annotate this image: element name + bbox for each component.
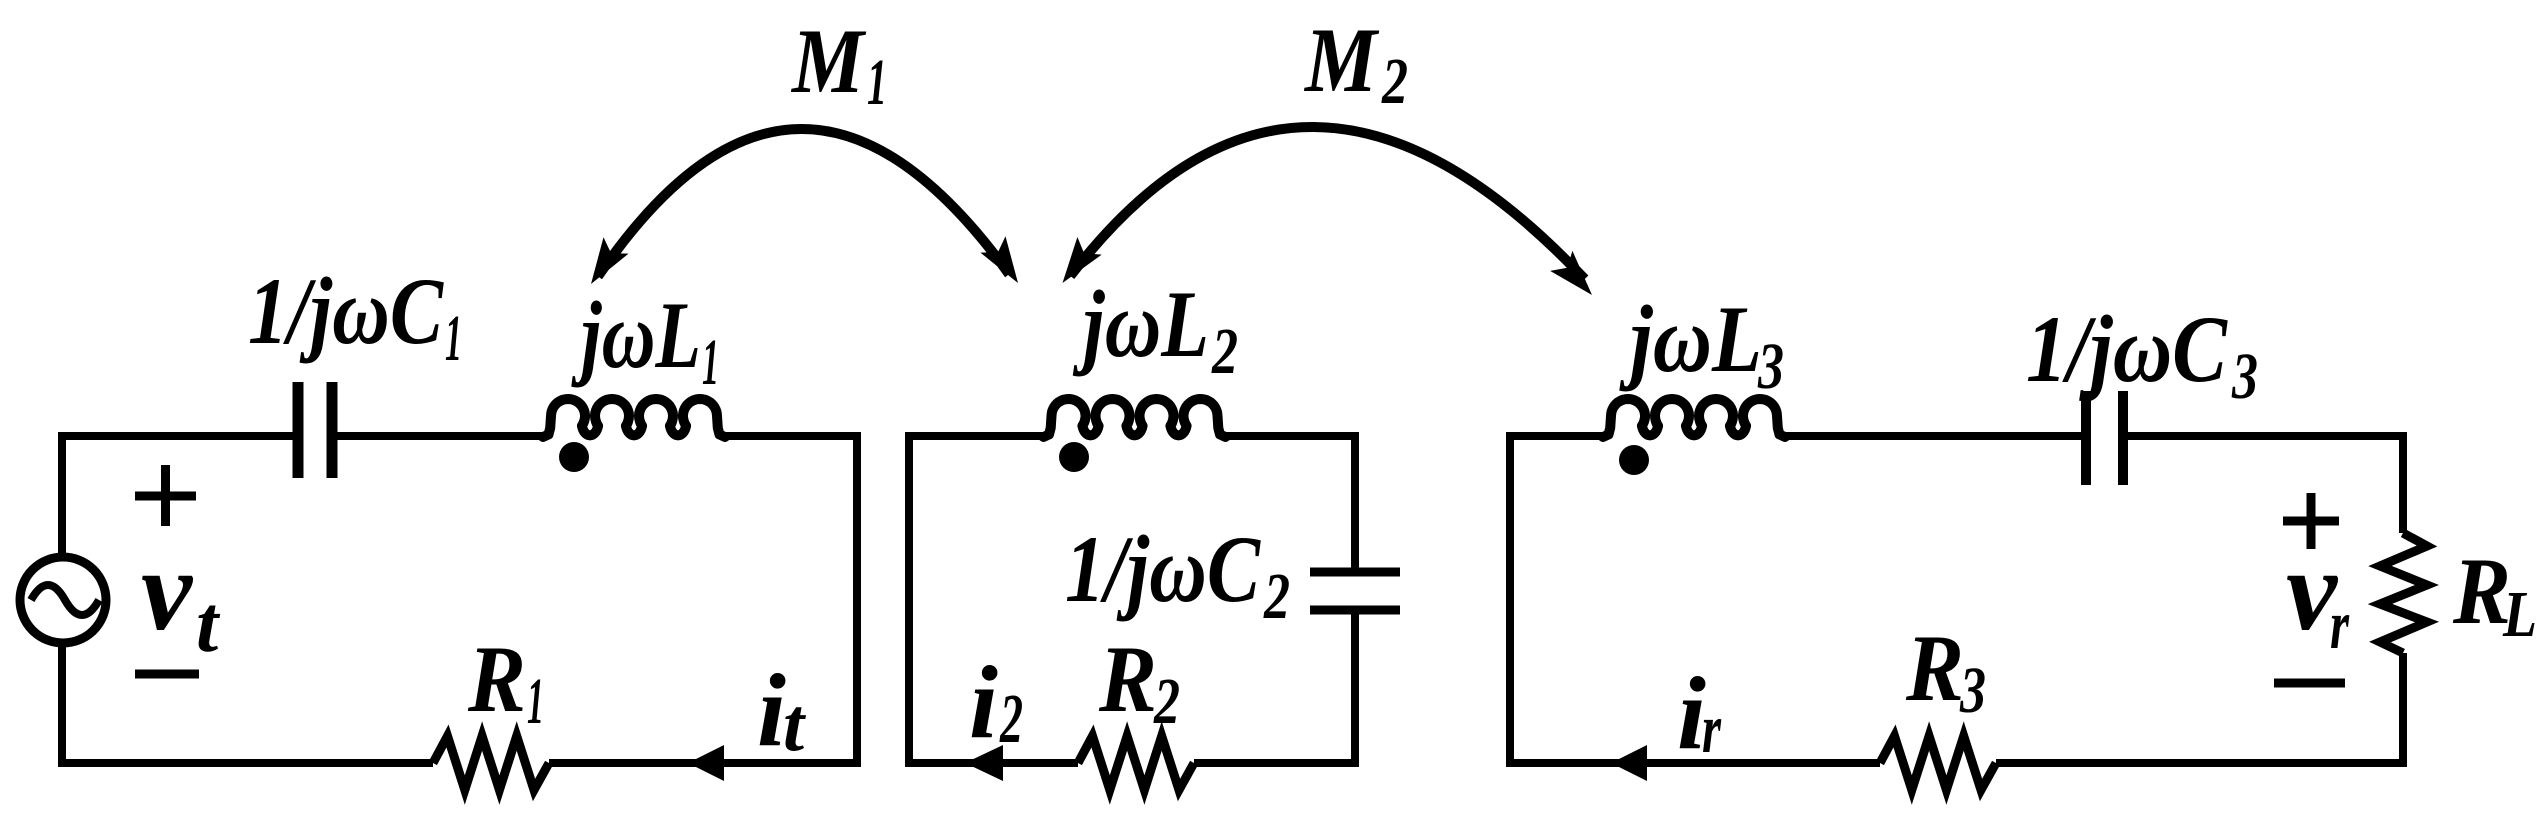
wire loop2 top-right segment <box>1223 432 1355 440</box>
svg-text:L: L <box>2502 578 2537 651</box>
svg-text:2: 2 <box>1263 560 1290 633</box>
svg-text:2: 2 <box>999 681 1023 758</box>
svg-text:M: M <box>790 10 867 112</box>
svg-text:1: 1 <box>702 326 719 399</box>
wire loop1 bottom right segment <box>549 759 861 767</box>
svg-text:jωL: jωL <box>1619 286 1762 392</box>
wire loop3 bottom left segment <box>1506 759 1880 767</box>
wire loop1 top cap-to-coil segment <box>332 432 545 440</box>
svg-text:M: M <box>1303 9 1380 111</box>
capacitor C1 left plate <box>293 382 304 478</box>
mutual coupling M2 arc <box>1070 127 1585 279</box>
inductor L2 coil <box>1044 399 1226 437</box>
resistor RL zigzag <box>2380 533 2427 653</box>
svg-text:R: R <box>467 626 526 732</box>
wire loop2 right upper <box>1351 432 1359 572</box>
wire loop3 bottom right segment <box>1996 759 2407 767</box>
wire loop1 bottom left segment <box>58 759 433 767</box>
minus sign left <box>135 670 199 679</box>
svg-text:i: i <box>969 645 998 760</box>
resistor R3 zigzag <box>1880 736 1996 790</box>
svg-text:t: t <box>783 683 807 767</box>
svg-text:1/jωC: 1/jωC <box>248 258 444 364</box>
capacitor C2 top plate <box>1310 568 1400 577</box>
M2 arrowhead right <box>1550 251 1592 295</box>
svg-text:1: 1 <box>445 302 462 375</box>
capacitor C1 right plate <box>327 382 338 478</box>
wire loop3 top right segment <box>2123 432 2403 440</box>
svg-text:t: t <box>196 581 221 669</box>
source Vt circle <box>20 557 106 643</box>
resistor R2 zigzag <box>1078 736 1194 790</box>
svg-text:3: 3 <box>2231 340 2258 413</box>
wire loop3 right upper <box>2399 432 2407 533</box>
wire loop3 top-left segment <box>1510 432 1605 436</box>
mutual coupling M1 arc <box>598 129 1009 276</box>
plus sign right <box>2283 493 2339 549</box>
svg-text:2: 2 <box>1381 45 1408 118</box>
dot L2 polarity <box>1059 442 1089 472</box>
arrow it current <box>688 745 724 781</box>
plus sign left <box>135 465 196 526</box>
wire loop1 top-left segment <box>62 432 298 440</box>
M1 arrowhead left <box>591 237 629 284</box>
M2 arrowhead left <box>1063 237 1102 283</box>
resistor R1 zigzag <box>433 736 549 790</box>
wire loop3 right lower <box>2399 653 2407 767</box>
svg-text:1: 1 <box>867 46 887 119</box>
wire loop2 left <box>905 432 913 767</box>
svg-text:jωL: jωL <box>571 282 701 388</box>
wire loop1 top mid segment <box>723 432 861 440</box>
svg-text:2: 2 <box>1211 315 1238 388</box>
source Vt sine <box>31 585 99 615</box>
svg-text:jωL: jωL <box>1072 271 1209 377</box>
wire loop3 top mid segment <box>1783 432 2086 440</box>
svg-text:R: R <box>1905 615 1964 721</box>
minus sign right <box>2274 679 2345 688</box>
dot L1 polarity <box>559 442 589 472</box>
wire loop1 right <box>853 432 861 767</box>
inductor L3 coil <box>1603 399 1785 437</box>
wire loop1 left upper <box>58 432 66 557</box>
wire loop2 top-left segment <box>909 432 1046 436</box>
wire loop1 left lower <box>58 643 66 767</box>
svg-text:3: 3 <box>1959 654 1986 727</box>
svg-text:r: r <box>1702 691 1722 768</box>
inductor L1 coil <box>543 399 725 437</box>
svg-text:r: r <box>2330 587 2350 664</box>
dot L3 polarity <box>1619 445 1649 475</box>
wire loop3 left <box>1506 432 1514 767</box>
svg-text:v: v <box>141 527 194 654</box>
svg-text:1/jωC: 1/jωC <box>1065 516 1261 622</box>
svg-text:3: 3 <box>1757 330 1784 403</box>
svg-text:1/jωC: 1/jωC <box>2026 296 2228 402</box>
arrow i2 current <box>965 745 1003 781</box>
svg-text:R: R <box>1098 626 1157 732</box>
svg-text:i: i <box>757 653 786 768</box>
capacitor C3 right plate <box>2118 391 2128 485</box>
wire loop2 bottom left segment <box>905 759 1078 767</box>
arrow ir current <box>1611 745 1647 781</box>
M1 arrowhead right <box>980 236 1018 283</box>
wire loop2 bottom right segment <box>1194 759 1359 767</box>
capacitor C3 left plate <box>2081 391 2091 485</box>
svg-text:1: 1 <box>527 665 544 738</box>
capacitor C2 bottom plate <box>1310 606 1400 615</box>
wire loop2 right lower <box>1351 610 1359 767</box>
svg-text:2: 2 <box>1153 665 1180 738</box>
